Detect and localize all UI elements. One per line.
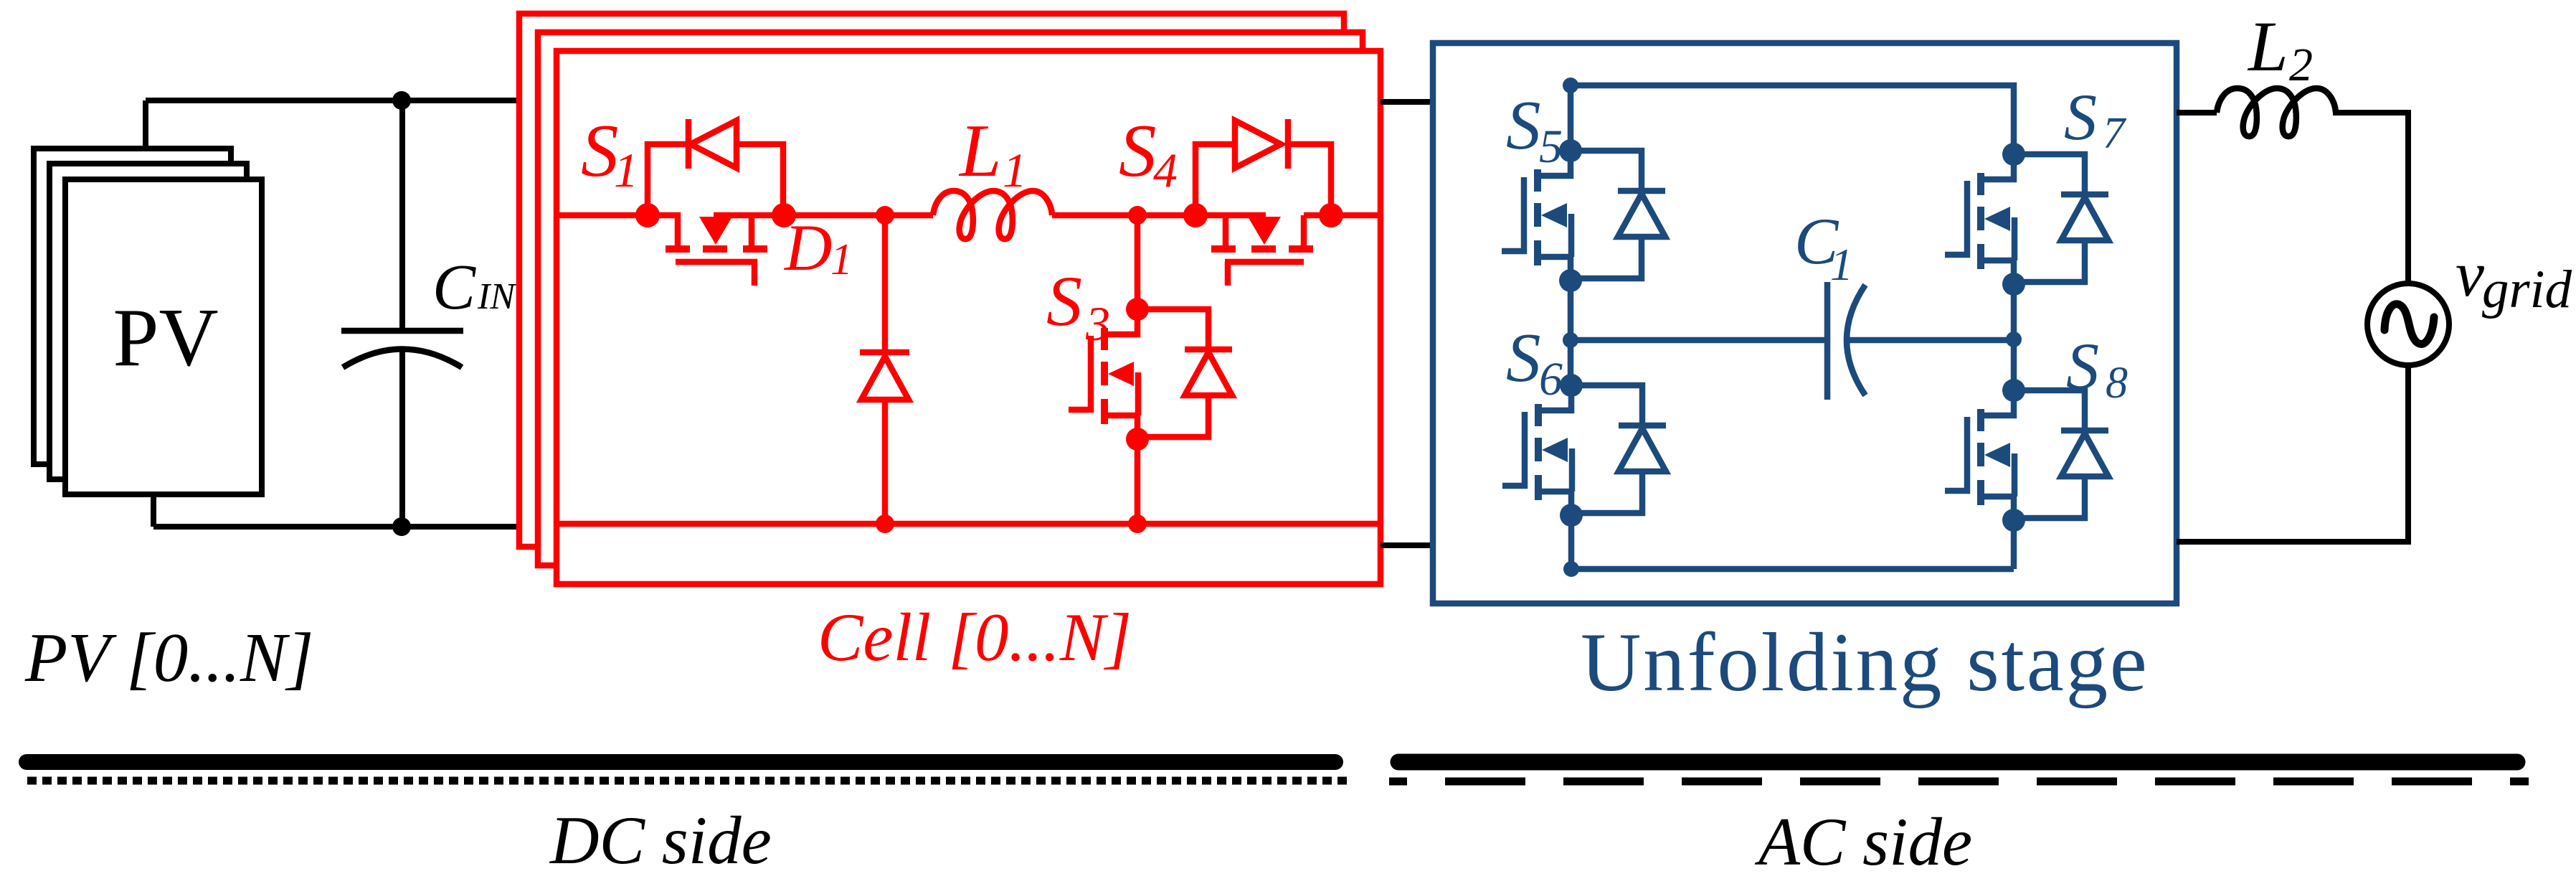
mosfet S7 bbox=[1945, 143, 2108, 296]
svg-text:S: S bbox=[1119, 108, 1157, 192]
DC side dotted separator bbox=[27, 777, 1348, 785]
wire top rail bbox=[1563, 77, 2014, 154]
wire L2 to grid source bbox=[2333, 113, 2408, 283]
wire grid source bottom bbox=[2177, 365, 2408, 542]
wire top rail mid segment bbox=[784, 212, 933, 219]
label C1 bbox=[1794, 204, 1853, 290]
wire bottom rail bbox=[557, 521, 1381, 527]
svg-text:PV [0...N]: PV [0...N] bbox=[24, 619, 313, 696]
wire top rail left segment bbox=[557, 212, 648, 219]
svg-text:Cell [0...N]: Cell [0...N] bbox=[818, 599, 1132, 675]
cell front sheet bbox=[557, 51, 1381, 584]
node bottom junction bbox=[392, 517, 411, 536]
mosfet S8 bbox=[1945, 379, 2108, 532]
svg-text:S: S bbox=[1046, 261, 1082, 341]
node top junction bbox=[392, 91, 411, 110]
wire right leg lower bbox=[2011, 520, 2017, 569]
wire mid rail right bbox=[1849, 331, 2022, 347]
label PV bbox=[113, 292, 218, 383]
svg-text:3: 3 bbox=[1085, 296, 1110, 351]
wire mid rail left bbox=[1571, 337, 1827, 344]
label DC side bbox=[549, 802, 772, 878]
svg-text:Unfolding stage: Unfolding stage bbox=[1581, 616, 2149, 709]
cell back sheet bbox=[519, 14, 1344, 547]
wire cell to unfolding bottom bbox=[1381, 542, 1433, 548]
label L1 bbox=[958, 108, 1027, 197]
wire top rail right segment bbox=[1331, 212, 1381, 219]
svg-text:D: D bbox=[783, 211, 832, 284]
svg-text:S: S bbox=[581, 108, 619, 192]
label Cell [0...N] bbox=[818, 599, 1132, 675]
svg-text:8: 8 bbox=[2106, 359, 2128, 408]
PV panel back sheet bbox=[34, 149, 231, 464]
svg-text:L: L bbox=[958, 108, 1001, 192]
svg-text:C: C bbox=[432, 252, 476, 323]
label D1 bbox=[783, 211, 853, 284]
wire PV bottom to bottom rail bbox=[151, 494, 156, 527]
svg-text:AC side: AC side bbox=[1754, 804, 1972, 880]
wire left leg lower bbox=[1563, 515, 1579, 577]
wire top rail right-mid segment bbox=[1052, 212, 1195, 219]
wire unfolding to L2 bbox=[2177, 110, 2217, 116]
svg-text:1: 1 bbox=[614, 143, 638, 197]
svg-text:1: 1 bbox=[1830, 239, 1853, 290]
mosfet S3 bbox=[1069, 298, 1232, 451]
label Unfolding stage bbox=[1581, 616, 2149, 709]
cell middle sheet bbox=[538, 32, 1363, 565]
mosfet S1 bbox=[635, 119, 796, 286]
label S6 bbox=[1506, 319, 1563, 405]
AC source vgrid bbox=[2367, 283, 2449, 365]
svg-text:2: 2 bbox=[2289, 39, 2313, 91]
mosfet S4 bbox=[1183, 119, 1343, 286]
svg-text:1: 1 bbox=[830, 235, 853, 284]
svg-text:PV: PV bbox=[113, 292, 218, 383]
label AC side bbox=[1754, 804, 1972, 880]
label PV [0...N] bbox=[24, 619, 313, 696]
wire S3 source branch bbox=[1128, 439, 1147, 533]
diode D1 bbox=[860, 206, 909, 533]
mosfet S6 bbox=[1502, 374, 1666, 527]
label S8 bbox=[2066, 329, 2128, 408]
wire cell to unfolding top bbox=[1381, 99, 1433, 105]
wire bottom rail bbox=[1571, 566, 2014, 573]
svg-text:1: 1 bbox=[1003, 143, 1027, 197]
wire bottom rail to cell box bbox=[153, 524, 521, 530]
wire PV top to top rail bbox=[143, 100, 148, 149]
label S4 bbox=[1119, 108, 1178, 197]
label vgrid bbox=[2456, 239, 2572, 319]
DC side solid separator bbox=[27, 754, 1335, 770]
svg-text:S: S bbox=[1506, 319, 1541, 396]
svg-text:S: S bbox=[1506, 87, 1541, 164]
inductor L1 bbox=[933, 191, 1052, 239]
wire top rail to cell box bbox=[146, 98, 521, 103]
PV panel front sheet bbox=[65, 179, 262, 494]
svg-text:S: S bbox=[2066, 329, 2099, 403]
svg-text:grid: grid bbox=[2482, 260, 2572, 319]
svg-text:v: v bbox=[2456, 239, 2484, 310]
mosfet S5 bbox=[1502, 139, 1665, 292]
label S1 bbox=[581, 108, 638, 197]
label S5 bbox=[1506, 87, 1563, 173]
svg-text:S: S bbox=[2064, 80, 2097, 154]
capacitor CIN bbox=[341, 100, 463, 527]
AC side solid separator bbox=[1398, 754, 2517, 771]
svg-text:6: 6 bbox=[1539, 353, 1563, 405]
svg-text:5: 5 bbox=[1539, 121, 1563, 173]
AC side dashed separator bbox=[1389, 778, 2529, 786]
svg-text:7: 7 bbox=[2103, 109, 2127, 158]
svg-text:IN: IN bbox=[477, 276, 517, 317]
PV panel middle sheet bbox=[49, 164, 247, 479]
label CIN bbox=[432, 252, 517, 323]
wire right leg middle bbox=[2011, 285, 2017, 390]
svg-text:4: 4 bbox=[1153, 143, 1178, 197]
svg-text:DC side: DC side bbox=[549, 802, 772, 878]
svg-text:L: L bbox=[2247, 6, 2288, 86]
label S7 bbox=[2064, 80, 2127, 158]
unfolding stage box bbox=[1433, 43, 2177, 603]
wire left leg upper bbox=[1568, 85, 1574, 151]
wire left leg middle bbox=[1563, 280, 1578, 385]
label L2 bbox=[2247, 6, 2313, 91]
capacitor C1 bbox=[1827, 282, 1865, 400]
wire S3 drain branch bbox=[1128, 206, 1147, 309]
label S3 bbox=[1046, 261, 1110, 351]
inductor L2 bbox=[2217, 88, 2336, 136]
